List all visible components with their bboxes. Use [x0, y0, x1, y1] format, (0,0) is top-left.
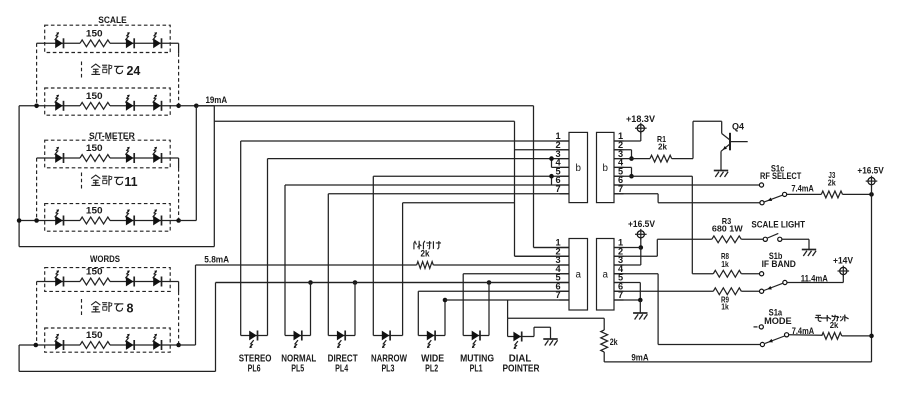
svg-text:2k: 2k	[828, 178, 836, 188]
svg-text:a: a	[603, 270, 609, 281]
svg-text:Q4: Q4	[732, 122, 745, 133]
svg-text:5.8mA: 5.8mA	[204, 254, 229, 264]
svg-text:SCALE LIGHT: SCALE LIGHT	[751, 219, 805, 230]
svg-text:S/T-METER: S/T-METER	[89, 131, 135, 141]
svg-text:150: 150	[86, 91, 103, 101]
svg-text:PL5: PL5	[291, 363, 304, 374]
svg-text:+18.3V: +18.3V	[626, 114, 656, 124]
svg-text:PL3: PL3	[381, 363, 394, 374]
svg-text:1k: 1k	[721, 301, 729, 311]
svg-text:150: 150	[86, 28, 103, 38]
svg-text:150: 150	[86, 267, 103, 277]
svg-text:2k: 2k	[658, 142, 667, 152]
svg-text:150: 150	[86, 143, 103, 153]
svg-text:+16.5V: +16.5V	[857, 166, 884, 176]
svg-text:b: b	[603, 163, 609, 174]
svg-text:PL4: PL4	[335, 363, 348, 374]
svg-text:7.4mA: 7.4mA	[792, 326, 815, 336]
svg-text:150: 150	[86, 330, 103, 340]
svg-text:9mA: 9mA	[631, 352, 648, 362]
svg-text:2k: 2k	[610, 337, 619, 347]
svg-text:POINTER: POINTER	[503, 363, 541, 374]
svg-text:WORDS: WORDS	[90, 254, 120, 264]
svg-text:680 1W: 680 1W	[712, 224, 743, 234]
svg-text:PL2: PL2	[425, 363, 438, 374]
svg-text:7.4mA: 7.4mA	[791, 183, 814, 193]
svg-text:+14V: +14V	[833, 256, 854, 266]
svg-text:+16.5V: +16.5V	[628, 219, 656, 229]
svg-text:11: 11	[124, 175, 137, 189]
svg-text:PL1: PL1	[470, 363, 483, 374]
svg-text:2k: 2k	[830, 320, 839, 330]
svg-text:IF BAND: IF BAND	[762, 258, 796, 269]
svg-text:a: a	[576, 270, 582, 281]
svg-text:2k: 2k	[421, 248, 431, 258]
svg-text:RF SELECT: RF SELECT	[760, 170, 802, 181]
svg-text:19mA: 19mA	[205, 95, 227, 105]
svg-text:150: 150	[86, 206, 103, 216]
svg-text:SCALE: SCALE	[98, 15, 126, 25]
svg-text:b: b	[576, 163, 582, 174]
svg-text:PL6: PL6	[248, 363, 261, 374]
svg-text:24: 24	[126, 64, 140, 78]
svg-text:8: 8	[127, 302, 134, 316]
svg-text:MODE: MODE	[764, 315, 792, 326]
svg-text:1k: 1k	[721, 259, 729, 269]
svg-text:11.4mA: 11.4mA	[801, 273, 828, 283]
